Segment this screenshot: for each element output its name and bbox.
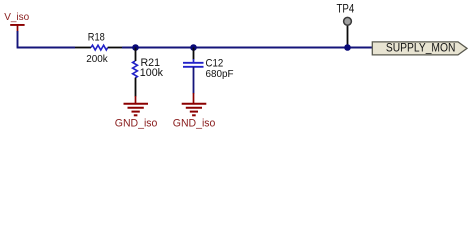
resistor R18 zigzag (91, 45, 108, 50)
svg-text:200k: 200k (86, 53, 108, 65)
port SUPPLY_MON shape (372, 42, 467, 55)
svg-text:TP4: TP4 (337, 4, 355, 16)
capacitor C12 top pin (193, 48, 195, 60)
svg-text:R18: R18 (88, 32, 105, 44)
capacitor C12 top stub (193, 59, 195, 63)
svg-text:V_iso: V_iso (4, 12, 29, 23)
ground GND_iso bars 2 (182, 104, 207, 116)
capacitor C12 plate 2 (183, 66, 204, 68)
power port V_iso stub (17, 25, 19, 32)
ground GND_iso stub 1 (135, 96, 137, 104)
wire R18 to TP4 node (122, 47, 373, 49)
svg-text:GND_iso: GND_iso (115, 118, 158, 130)
ground GND_iso stub 2 (193, 93, 195, 104)
svg-text:100k: 100k (140, 67, 164, 79)
resistor R18 left pin (75, 47, 91, 49)
wire horizontal to R18 (17, 47, 75, 49)
capacitor C12 plate 1 (183, 62, 204, 64)
ground GND_iso bars 1 (124, 104, 149, 116)
svg-text:GND_iso: GND_iso (173, 118, 216, 130)
power port V_iso bar (10, 24, 24, 26)
svg-text:680pF: 680pF (206, 68, 234, 80)
wire vertical from V_iso (17, 31, 19, 48)
resistor R21 zigzag (133, 61, 138, 78)
junction node C (344, 44, 351, 51)
junction node B (190, 44, 197, 51)
resistor R21 bottom pin (135, 78, 137, 97)
resistor R18 right pin (108, 47, 122, 49)
junction node A (132, 44, 139, 51)
svg-text:SUPPLY_MON: SUPPLY_MON (386, 41, 456, 55)
capacitor C12 bottom lead (193, 67, 195, 94)
resistor R21 top pin (135, 48, 137, 62)
test point TP4 circle (344, 17, 352, 25)
test point TP4 pin (347, 25, 349, 48)
